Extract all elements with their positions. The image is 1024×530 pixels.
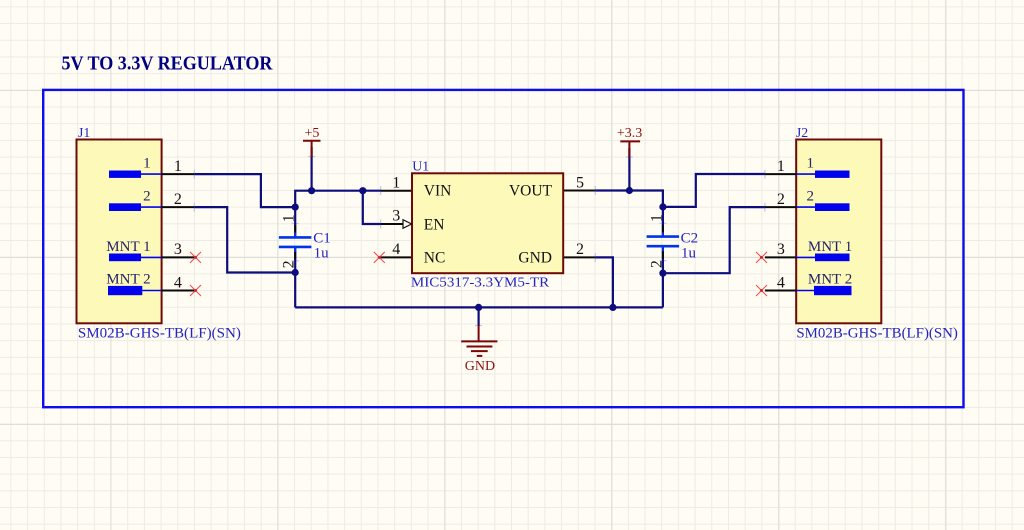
svg-text:J1: J1 <box>78 125 90 140</box>
svg-text:3: 3 <box>174 241 182 258</box>
svg-text:MNT 1: MNT 1 <box>808 239 852 255</box>
svg-text:+3.3: +3.3 <box>617 126 642 141</box>
svg-text:U1: U1 <box>412 159 429 174</box>
svg-text:1: 1 <box>143 156 151 172</box>
svg-text:C2: C2 <box>681 230 699 246</box>
svg-text:4: 4 <box>174 274 182 291</box>
svg-text:+5: +5 <box>304 126 319 141</box>
svg-text:J2: J2 <box>796 125 808 140</box>
svg-text:1: 1 <box>174 158 182 175</box>
svg-text:1u: 1u <box>314 246 330 262</box>
svg-text:2: 2 <box>174 191 182 208</box>
svg-text:2: 2 <box>777 191 785 208</box>
svg-text:1: 1 <box>281 214 298 222</box>
svg-text:GND: GND <box>465 359 495 374</box>
svg-text:VIN: VIN <box>424 183 452 200</box>
svg-text:2: 2 <box>648 260 665 268</box>
svg-text:4: 4 <box>392 241 400 258</box>
svg-text:2: 2 <box>807 189 815 205</box>
svg-text:GND: GND <box>518 250 552 267</box>
svg-text:1: 1 <box>807 156 815 172</box>
svg-text:MNT 2: MNT 2 <box>106 271 150 287</box>
svg-text:5: 5 <box>576 175 584 192</box>
svg-text:1u: 1u <box>681 246 697 262</box>
svg-text:3: 3 <box>392 208 400 225</box>
svg-text:2: 2 <box>281 260 298 268</box>
svg-text:C1: C1 <box>313 231 331 247</box>
svg-text:SM02B-GHS-TB(LF)(SN): SM02B-GHS-TB(LF)(SN) <box>78 325 241 341</box>
svg-text:VOUT: VOUT <box>509 183 553 200</box>
svg-text:MNT 1: MNT 1 <box>106 239 150 255</box>
svg-text:1: 1 <box>648 214 665 222</box>
svg-text:2: 2 <box>576 241 584 258</box>
svg-text:NC: NC <box>424 250 446 267</box>
svg-text:4: 4 <box>777 274 785 291</box>
svg-text:MIC5317-3.3YM5-TR: MIC5317-3.3YM5-TR <box>411 276 550 291</box>
svg-text:1: 1 <box>392 174 400 191</box>
svg-text:2: 2 <box>143 189 151 205</box>
svg-text:MNT 2: MNT 2 <box>808 271 852 287</box>
svg-text:EN: EN <box>424 216 445 233</box>
svg-text:SM02B-GHS-TB(LF)(SN): SM02B-GHS-TB(LF)(SN) <box>796 325 958 341</box>
svg-text:3: 3 <box>777 241 785 258</box>
svg-text:5V TO 3.3V REGULATOR: 5V TO 3.3V REGULATOR <box>62 54 274 75</box>
svg-text:1: 1 <box>777 158 785 175</box>
